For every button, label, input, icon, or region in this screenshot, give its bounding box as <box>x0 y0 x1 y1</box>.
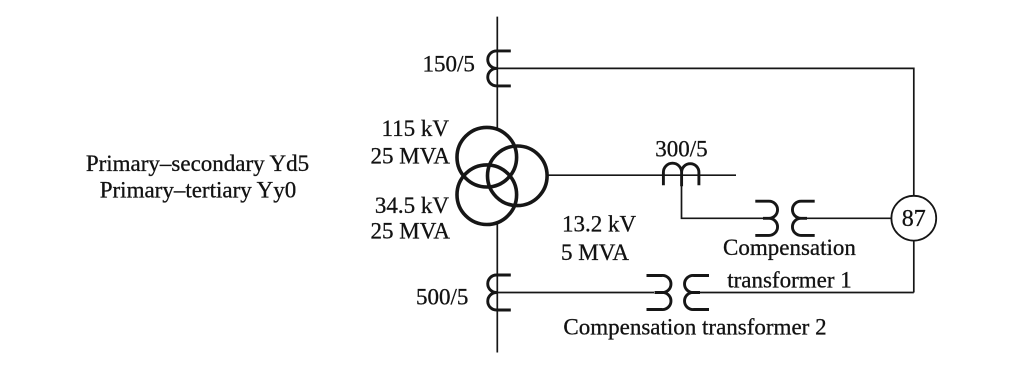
compensation transformer 2 left winding <box>647 275 671 309</box>
compensation transformer 2 right winding <box>685 275 709 309</box>
CT 300/5 symbol <box>663 163 699 186</box>
svg-text:150/5: 150/5 <box>423 51 475 76</box>
svg-text:Compensation: Compensation <box>723 235 856 260</box>
transformer secondary winding circle <box>457 165 517 225</box>
svg-text:Primary–secondary Yd5: Primary–secondary Yd5 <box>86 151 309 176</box>
svg-text:Primary–tertiary Yy0: Primary–tertiary Yy0 <box>100 177 297 202</box>
transformer tertiary winding circle <box>488 146 548 206</box>
svg-text:13.2 kV: 13.2 kV <box>562 212 637 237</box>
CT 150/5 symbol <box>488 51 511 86</box>
wire: HV bus vertical lower segment <box>496 223 498 353</box>
CT 500/5 symbol <box>488 275 511 310</box>
wire: tertiary lead <box>547 174 736 176</box>
compensation transformer 1 right winding <box>792 201 814 235</box>
svg-text:500/5: 500/5 <box>416 284 468 309</box>
svg-text:25 MVA: 25 MVA <box>371 219 451 244</box>
relay 87 circle <box>891 196 936 241</box>
wire: CT 300/5 secondary drop to compensation transformer 1 <box>682 175 764 218</box>
svg-text:5 MVA: 5 MVA <box>561 240 629 265</box>
compensation transformer 1 left winding <box>755 201 777 235</box>
svg-text:300/5: 300/5 <box>655 137 707 162</box>
wire: relay 87 to bottom run <box>913 241 915 292</box>
svg-text:34.5 kV: 34.5 kV <box>375 193 450 218</box>
transformer primary winding circle <box>457 127 517 187</box>
wire: compensation transformer 1 to relay 87 <box>807 217 891 219</box>
svg-text:87: 87 <box>902 206 926 232</box>
svg-text:25 MVA: 25 MVA <box>371 144 451 169</box>
wire: CT 150/5 secondary top run to relay <box>497 68 914 195</box>
wire: HV bus vertical upper segment <box>496 17 498 130</box>
wire: compensation transformer 2 to relay bottom run <box>700 292 914 294</box>
svg-text:Compensation transformer 2: Compensation transformer 2 <box>563 315 826 340</box>
wire: CT 500/5 secondary to compensation transformer 2 <box>497 292 655 294</box>
svg-text:transformer 1: transformer 1 <box>727 268 852 293</box>
svg-text:115 kV: 115 kV <box>381 116 449 141</box>
